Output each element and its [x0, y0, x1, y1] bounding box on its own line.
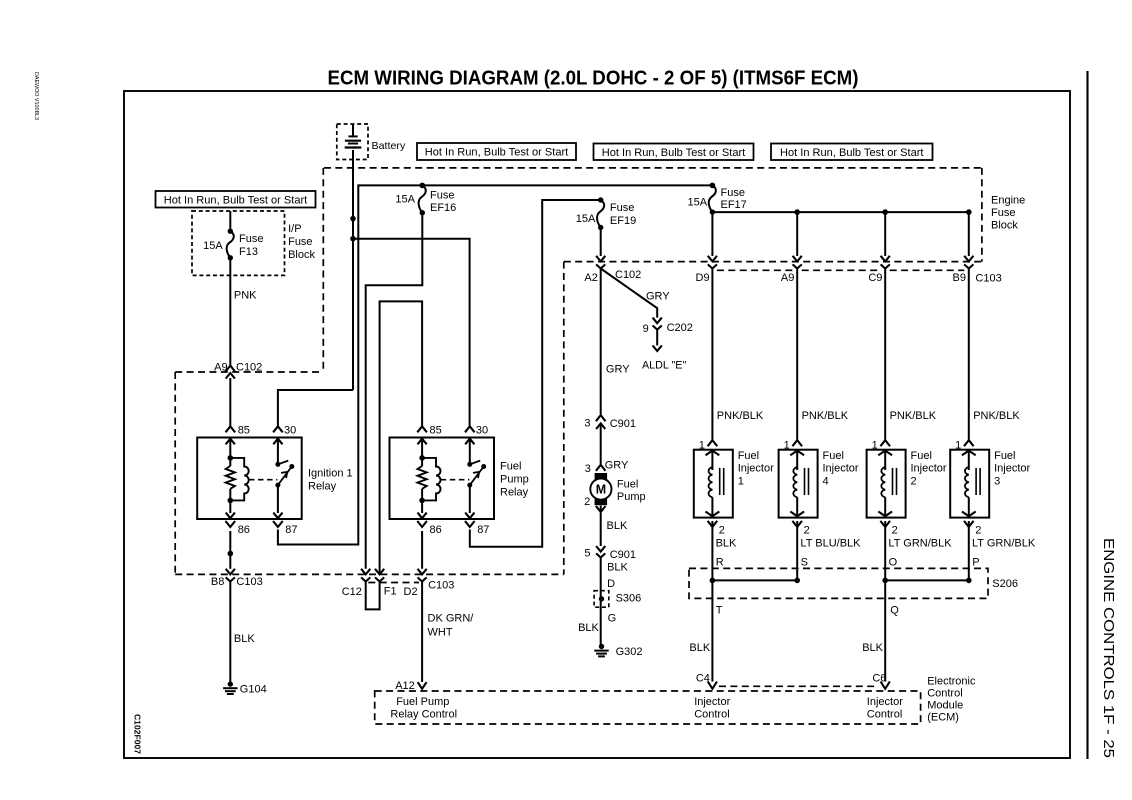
- injector 2 arrow out: [878, 512, 892, 517]
- svg-text:Control: Control: [867, 708, 902, 720]
- ignition relay K1 wire to coil: [229, 439, 231, 466]
- svg-text:B8: B8: [211, 576, 224, 588]
- fuel pump relay K2 coil top junction: [419, 455, 425, 461]
- wire bus to B9: [968, 212, 970, 256]
- fuel pump relay K2 pin 86 chevron: [417, 521, 427, 527]
- ignition relay K1 coil-switch dashed link: [249, 479, 278, 481]
- ignition relay K1 pin 86 arrow: [226, 513, 235, 519]
- injector 3 wire internal bottom: [968, 497, 970, 517]
- ignition relay K1 pin 30 arrow: [273, 439, 282, 445]
- wire BLK splice to ECM C6: [884, 580, 886, 681]
- injector 4 wire internal bottom: [796, 497, 798, 517]
- svg-text:BLK: BLK: [234, 633, 255, 645]
- fuse EF19: [598, 197, 603, 202]
- svg-text:87: 87: [477, 524, 489, 536]
- svg-text:Relay: Relay: [500, 486, 529, 498]
- svg-text:WHT: WHT: [428, 626, 453, 638]
- svg-text:C901: C901: [610, 549, 636, 561]
- connector C103 pin F1 arrow: [375, 569, 384, 575]
- main frame border: [124, 91, 1070, 758]
- wire injector 4 to splice: [796, 521, 798, 580]
- svg-text:A12: A12: [395, 680, 415, 692]
- fuel pump relay K2 switch blade top: [481, 464, 486, 469]
- wire PNK/BLK to injector 3: [968, 269, 970, 441]
- connector C102 dashed line left: [175, 371, 323, 373]
- ignition relay K1 pin 85 chevron: [226, 426, 236, 432]
- svg-text:5: 5: [584, 547, 590, 559]
- splice junction: [966, 578, 972, 584]
- splice junction: [710, 578, 716, 584]
- connector C102/C103 dashed line: [564, 261, 982, 263]
- injector 3 core bar 2: [979, 468, 981, 495]
- fuel pump relay K2 pin 30 chevron: [465, 426, 475, 432]
- ignition relay K1 pin 87 chevron: [273, 521, 283, 527]
- svg-text:D2: D2: [404, 586, 418, 598]
- ignition relay K1 switch contact arm: [278, 461, 288, 465]
- svg-text:LT GRN/BLK: LT GRN/BLK: [888, 538, 952, 550]
- wire C202 to ALDL: [656, 330, 658, 346]
- fuel pump relay K2 coil bottom junction: [419, 498, 425, 504]
- svg-text:3: 3: [584, 418, 590, 430]
- right sidebar rule: [1086, 71, 1088, 759]
- injector 1 pin 2 chevron: [708, 521, 718, 527]
- injector 3 pin 1 chevron: [964, 440, 974, 446]
- junction battery to fuel pump relay 30: [350, 236, 356, 242]
- connector pin C9 arrow: [881, 256, 890, 262]
- wire injector feed bus: [712, 211, 968, 213]
- injector 3 coil: [965, 467, 969, 497]
- ignition relay K1 pin 86 chevron: [226, 521, 236, 527]
- injector 1 pin 1 chevron: [708, 440, 718, 446]
- fuel pump relay K2 pin 87 arrow: [465, 513, 474, 519]
- wire battery down: [352, 150, 354, 390]
- svg-text:LT GRN/BLK: LT GRN/BLK: [972, 538, 1036, 550]
- svg-text:2: 2: [719, 525, 725, 537]
- svg-text:C103: C103: [236, 576, 262, 588]
- wire relay2 86 to C103 D2: [421, 531, 423, 569]
- fuel pump pin 3 chevron: [596, 465, 606, 471]
- fuse EF17: [710, 183, 715, 188]
- connector pin A9 socket: [793, 264, 802, 268]
- svg-text:2: 2: [911, 476, 917, 488]
- junction injector bus C9: [882, 209, 888, 215]
- injector 3 core bar 1: [975, 468, 977, 495]
- engine fuse block dashed top: [324, 167, 982, 169]
- junction fuse EF16: [420, 183, 426, 189]
- svg-text:C103: C103: [428, 580, 454, 592]
- injector 2 arrow in: [878, 451, 892, 456]
- svg-text:Relay: Relay: [308, 480, 337, 492]
- injector 2 coil: [881, 467, 885, 497]
- fuel pump relay K2 switch bottom contact: [467, 483, 472, 488]
- fuel pump relay K2 wire coil to 86: [421, 489, 423, 513]
- svg-text:C9: C9: [868, 272, 882, 284]
- dashed vertical right of relays: [563, 262, 565, 575]
- svg-text:PNK/BLK: PNK/BLK: [890, 410, 937, 422]
- injector 2 wire internal top: [884, 450, 886, 470]
- wire F13 top: [229, 211, 231, 231]
- ECM connector dashed line C4-C6: [719, 685, 879, 687]
- svg-text:2: 2: [804, 525, 810, 537]
- fuel pump relay K2 pin 85 chevron: [417, 426, 427, 432]
- splice S306 dot: [599, 596, 604, 601]
- injector 4 core bar 2: [808, 468, 810, 495]
- connector C202 socket: [653, 326, 662, 330]
- svg-text:30: 30: [284, 425, 296, 437]
- ground G302: [599, 644, 604, 649]
- svg-text:Relay Control: Relay Control: [390, 708, 457, 720]
- ignition relay K1 pin 85 arrow: [226, 439, 235, 445]
- svg-text:A2: A2: [584, 272, 597, 284]
- svg-text:85: 85: [430, 425, 442, 437]
- ignition relay K1 switch bottom contact: [275, 483, 280, 488]
- fuel pump relay K2 pin 86 arrow: [418, 513, 427, 519]
- wire BLK below pump: [600, 506, 602, 547]
- svg-text:G: G: [608, 612, 617, 624]
- wire injector 2 to splice: [884, 521, 886, 580]
- injector 3 arrow in: [962, 451, 976, 456]
- injector 2 core bar 1: [892, 468, 894, 495]
- ignition relay K1 switch blade: [278, 467, 292, 486]
- wire PNK/BLK to injector 2: [884, 269, 886, 441]
- svg-text:2: 2: [975, 525, 981, 537]
- ignition relay K1 switch fixed contact: [275, 462, 280, 467]
- fuse F13: [228, 229, 233, 234]
- fuse EF16: [420, 183, 425, 188]
- svg-text:C103: C103: [975, 273, 1001, 285]
- svg-text:30: 30: [476, 425, 488, 437]
- svg-text:Pump: Pump: [617, 491, 646, 503]
- injector 1 coil: [709, 467, 713, 497]
- junction on B8 wire: [228, 551, 234, 557]
- connector C103 lower dashed 3: [890, 269, 965, 271]
- svg-text:DK GRN/: DK GRN/: [428, 613, 475, 625]
- injector 3 arrow out: [962, 512, 976, 517]
- svg-text:1: 1: [738, 476, 744, 488]
- injector 2 pin 2 chevron: [880, 521, 890, 527]
- wire relay 86 to C103 B8: [229, 531, 231, 569]
- svg-text:G302: G302: [616, 646, 643, 658]
- svg-text:Hot In Run, Bulb Test or Start: Hot In Run, Bulb Test or Start: [780, 147, 924, 159]
- arrow to C202: [653, 318, 662, 324]
- svg-text:I/P: I/P: [288, 223, 301, 235]
- svg-text:P: P: [972, 557, 979, 569]
- ignition relay K1 box: [197, 438, 302, 520]
- connector C103 pin B8 arrow: [226, 569, 235, 575]
- svg-text:Control: Control: [927, 687, 962, 699]
- fuel pump relay K2 switch blade arrow: [473, 472, 479, 478]
- injector 2 core bar 2: [896, 468, 898, 495]
- ignition relay K1 coil bottom junction: [228, 498, 234, 504]
- svg-text:PNK/BLK: PNK/BLK: [802, 410, 849, 422]
- wire ignition relay 87 to fuse bus: [278, 185, 713, 544]
- svg-text:S306: S306: [616, 593, 642, 605]
- svg-text:Injector: Injector: [911, 463, 947, 475]
- svg-text:Fuse: Fuse: [288, 236, 312, 248]
- svg-text:Battery: Battery: [372, 140, 407, 152]
- connector C103 lower dashed at C12-D2: [368, 582, 419, 584]
- injector 2 pin 1 chevron: [880, 440, 890, 446]
- junction on battery wire: [350, 216, 356, 222]
- junction fuse EF17: [710, 183, 716, 189]
- fuel pump relay K2 box: [390, 438, 495, 520]
- svg-text:ECM WIRING DIAGRAM (2.0L DOHC: ECM WIRING DIAGRAM (2.0L DOHC - 2 OF 5) …: [328, 67, 859, 90]
- svg-text:PNK/BLK: PNK/BLK: [717, 410, 764, 422]
- svg-text:F13: F13: [239, 246, 258, 258]
- fuel pump relay K2 coil winding zigzag: [418, 466, 427, 489]
- svg-text:Fuel: Fuel: [911, 450, 932, 462]
- svg-text:Block: Block: [288, 249, 315, 261]
- svg-text:ALDL "E": ALDL "E": [642, 360, 686, 372]
- connector C103 lower dashed 2: [802, 269, 881, 271]
- injector 3 wire internal top: [968, 450, 970, 470]
- svg-text:EF19: EF19: [610, 215, 636, 227]
- svg-text:LT BLU/BLK: LT BLU/BLK: [800, 538, 861, 550]
- injector 4 pin 1 chevron: [792, 440, 802, 446]
- svg-text:(ECM): (ECM): [927, 712, 959, 724]
- svg-text:Injector: Injector: [994, 463, 1030, 475]
- svg-text:86: 86: [430, 524, 442, 536]
- svg-text:D: D: [607, 578, 615, 590]
- ignition relay K1 pin 30 chevron: [273, 426, 283, 432]
- fuel pump pin 2 chevron: [596, 506, 606, 512]
- fuel pump relay K2 wire switch to 87: [469, 485, 471, 513]
- svg-text:T: T: [716, 605, 723, 617]
- wire GRY branch to C202: [601, 269, 658, 318]
- svg-text:Block: Block: [991, 220, 1018, 232]
- fuel pump relay K2 coil arcs: [422, 458, 440, 501]
- wire bus to C9: [884, 212, 886, 256]
- connector C901 pin 3 arrow: [596, 423, 605, 429]
- fuel injector 1 box: [694, 450, 733, 518]
- wire bus to D9: [711, 212, 713, 256]
- dashed vertical under I/P fuse block: [322, 168, 324, 372]
- jumper wire C12 to F1: [366, 582, 380, 610]
- svg-text:Fuel: Fuel: [500, 461, 521, 473]
- svg-text:C102F007: C102F007: [133, 714, 143, 754]
- injector 3 pin 2 chevron: [964, 521, 974, 527]
- ECM pin C6 socket: [881, 682, 890, 689]
- svg-text:Injector: Injector: [738, 463, 774, 475]
- ignition relay K1 switch blade arrow: [281, 472, 287, 478]
- junction injector bus B9: [966, 209, 972, 215]
- ECM pin C4 socket: [708, 682, 717, 689]
- svg-text:PNK: PNK: [234, 289, 257, 301]
- connector C901 pin 5 arrow: [596, 546, 605, 552]
- injector 4 core bar 1: [804, 468, 806, 495]
- ignition relay K1 coil arcs: [230, 458, 248, 501]
- injector 1 wire internal top: [711, 450, 713, 470]
- connector C103 pin D2 socket: [418, 577, 427, 581]
- fuel pump relay K2 wire to switch: [469, 439, 471, 465]
- svg-text:Fuel: Fuel: [823, 450, 844, 462]
- connector C103 pin B8 socket: [226, 577, 235, 581]
- wire PNK F13 to C102: [229, 258, 231, 366]
- svg-text:Fuel: Fuel: [738, 450, 759, 462]
- fuel pump relay K2 pin 30 arrow: [465, 439, 474, 445]
- svg-text:Module: Module: [927, 699, 963, 711]
- injector 2 wire internal bottom: [884, 497, 886, 517]
- svg-text:Injector: Injector: [867, 696, 903, 708]
- fuel pump relay K2 wire to coil: [421, 439, 423, 466]
- injector 1 core bar 2: [723, 468, 725, 495]
- svg-text:2: 2: [892, 525, 898, 537]
- connector pin C9 socket: [881, 264, 890, 268]
- svg-text:3: 3: [994, 476, 1000, 488]
- ignition relay K1 wire to switch: [277, 439, 279, 465]
- injector 4 wire internal top: [796, 450, 798, 470]
- connector C901 pin 5 socket: [596, 553, 605, 557]
- svg-text:GRY: GRY: [646, 291, 670, 303]
- fuel pump relay K2 switch fixed contact: [467, 462, 472, 467]
- connector C103 pin D2 arrow: [418, 569, 427, 575]
- connector pin A9 arrow: [793, 256, 802, 262]
- ignition relay K1 wire coil to 86: [229, 489, 231, 513]
- svg-text:Fuse: Fuse: [430, 190, 454, 202]
- svg-text:EF17: EF17: [721, 199, 747, 211]
- svg-text:A9: A9: [781, 272, 794, 284]
- wire BLK to G302: [600, 558, 602, 647]
- svg-text:C6: C6: [872, 672, 886, 684]
- fuel pump relay K2 pin 87 chevron: [465, 521, 475, 527]
- connector C102 pin A9 chevron: [226, 366, 236, 372]
- splice S306 dashed box: [594, 591, 609, 608]
- svg-text:BLK: BLK: [578, 622, 599, 634]
- svg-text:Hot In Run, Bulb Test or Start: Hot In Run, Bulb Test or Start: [164, 194, 308, 206]
- battery dashed box: [337, 124, 368, 160]
- wire fuse EF16 to C103 C12: [366, 213, 423, 569]
- wire battery to fuel pump relay 30: [353, 239, 470, 427]
- svg-text:Injector: Injector: [694, 696, 730, 708]
- wire GRY to fuel pump: [600, 423, 602, 464]
- fuel pump motor M1: [590, 473, 611, 505]
- fuel pump relay K2 coil-switch dashed link: [441, 479, 470, 481]
- injector 1 arrow out: [706, 512, 720, 517]
- ignition relay K1 pin 87 arrow: [273, 513, 282, 519]
- svg-text:Fuel: Fuel: [994, 450, 1015, 462]
- connector C103 lower dashed 1: [717, 269, 793, 271]
- svg-text:Control: Control: [694, 708, 729, 720]
- svg-text:BLK: BLK: [689, 642, 710, 654]
- svg-text:3: 3: [585, 463, 591, 475]
- svg-text:Pump: Pump: [500, 474, 529, 486]
- ignition relay K1 wire switch to 87: [277, 485, 279, 513]
- engine fuse block dashed right: [981, 168, 983, 262]
- injector 4 pin 2 chevron: [792, 521, 802, 527]
- I/P fuse block dashed box: [192, 211, 285, 275]
- wire BLK to G104: [229, 582, 231, 685]
- svg-text:4: 4: [823, 476, 829, 488]
- splice bus injectors 2-3: [885, 579, 969, 581]
- wire fuse EF19 to C102 A2: [600, 228, 602, 257]
- splice junction: [882, 578, 888, 584]
- svg-text:BLK: BLK: [716, 538, 737, 550]
- splice S206 dashed box: [689, 568, 988, 598]
- svg-text:A9: A9: [214, 361, 227, 373]
- injector 1 wire internal bottom: [711, 497, 713, 517]
- svg-text:C102: C102: [236, 361, 262, 373]
- svg-text:C12: C12: [342, 586, 362, 598]
- fuel pump relay K2 switch contact arm: [470, 461, 480, 465]
- connector C103 pin C12 socket: [361, 577, 370, 581]
- svg-text:GRY: GRY: [605, 459, 629, 471]
- svg-text:S: S: [801, 557, 808, 569]
- wire C102 A9 to relay 85: [229, 378, 231, 426]
- svg-text:EF16: EF16: [430, 202, 456, 214]
- svg-text:C102: C102: [615, 269, 641, 281]
- ECM dashed box: [375, 691, 921, 724]
- wire PNK/BLK to injector 1: [711, 269, 713, 441]
- connector pin A2 arrow: [596, 256, 605, 262]
- wire GRY main: [600, 269, 602, 415]
- splice bus injectors 1-4: [712, 579, 797, 581]
- svg-text:86: 86: [238, 524, 250, 536]
- svg-text:15A: 15A: [203, 240, 223, 252]
- connector pin B9 socket: [964, 264, 973, 268]
- connector pin B9 arrow: [964, 256, 973, 262]
- splice junction: [794, 578, 800, 584]
- svg-text:BLK: BLK: [607, 520, 628, 532]
- injector 4 arrow out: [790, 512, 804, 517]
- wire DK GRN/WHT to A12: [421, 582, 423, 683]
- svg-text:Q: Q: [890, 605, 899, 617]
- ignition relay K1 switch blade top: [289, 464, 294, 469]
- svg-text:BLK: BLK: [862, 642, 883, 654]
- svg-text:Fuse: Fuse: [239, 233, 263, 245]
- svg-text:ENGINE CONTROLS 1F - 25: ENGINE CONTROLS 1F - 25: [1100, 538, 1116, 758]
- wire fuel pump relay 87 to fuse EF19: [470, 200, 601, 547]
- svg-text:PNK/BLK: PNK/BLK: [973, 410, 1020, 422]
- ignition relay K1 coil winding zigzag: [226, 466, 235, 489]
- ground G104: [228, 681, 233, 686]
- hot in run label box: [156, 191, 316, 208]
- fuel injector 4 box: [779, 450, 818, 518]
- fuel pump relay K2 switch blade: [470, 467, 484, 486]
- svg-text:Fuse: Fuse: [721, 187, 745, 199]
- svg-text:Hot In Run, Bulb Test or Start: Hot In Run, Bulb Test or Start: [602, 147, 746, 159]
- svg-text:Injector: Injector: [823, 463, 859, 475]
- svg-text:Ignition 1: Ignition 1: [308, 467, 353, 479]
- svg-text:Fuse: Fuse: [610, 202, 634, 214]
- injector 1 arrow in: [706, 451, 720, 456]
- connector C103 dashed line bottom: [175, 573, 564, 575]
- svg-text:Engine: Engine: [991, 194, 1025, 206]
- connector C102 pin A9 arrow: [226, 373, 235, 379]
- wire F1 to fuel pump relay 85: [380, 301, 423, 574]
- svg-text:Hot In Run, Bulb Test or Start: Hot In Run, Bulb Test or Start: [425, 147, 569, 159]
- injector 4 arrow in: [790, 451, 804, 456]
- svg-text:GRY: GRY: [606, 363, 630, 375]
- fuel injector 3 box: [950, 450, 989, 518]
- svg-text:85: 85: [238, 425, 250, 437]
- junction injector bus A9: [794, 209, 800, 215]
- hot in run label box: [594, 144, 754, 161]
- svg-text:DAEWOO V100BL3: DAEWOO V100BL3: [33, 72, 39, 120]
- connector C103 pin C12 arrow: [361, 569, 370, 575]
- hot in run label box: [771, 144, 933, 161]
- wire injector 3 to splice: [968, 521, 970, 580]
- svg-text:Fuse: Fuse: [991, 207, 1015, 219]
- svg-text:87: 87: [285, 524, 297, 536]
- svg-text:15A: 15A: [688, 197, 708, 209]
- wire PNK/BLK to injector 4: [796, 269, 798, 441]
- svg-text:G104: G104: [240, 684, 267, 696]
- connector pin D9 arrow: [708, 256, 717, 262]
- svg-text:S206: S206: [992, 578, 1018, 590]
- wire BLK splice to ECM C4: [711, 580, 713, 681]
- svg-text:M: M: [596, 483, 606, 497]
- connector pin A2 socket: [596, 264, 605, 268]
